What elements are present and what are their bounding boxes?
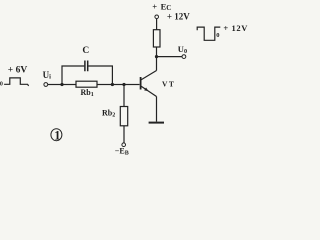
svg-text:VT: VT <box>162 80 175 89</box>
capacitor C <box>82 46 89 71</box>
wire: node A to Rb1 <box>62 84 76 86</box>
ground <box>149 122 164 124</box>
terminal Uo <box>178 44 187 58</box>
figure number 1 (circled) <box>51 128 62 142</box>
input terminal Ui <box>43 70 52 86</box>
node B (junction dot) <box>111 83 114 86</box>
transistor VT <box>141 71 176 97</box>
svg-text:0: 0 <box>216 32 219 39</box>
resistor Rb1 <box>76 81 97 98</box>
terminal -EB <box>115 143 129 157</box>
terminal +EC <box>152 1 171 18</box>
wire: node B to node C <box>112 84 124 86</box>
wire: Rc to +EC terminal <box>156 19 158 30</box>
input waveform pulse <box>4 78 29 86</box>
node C (junction dot) <box>122 83 125 86</box>
wire: node C down to Rb2 <box>123 85 125 107</box>
node A (junction dot) <box>60 83 63 86</box>
wire: Rb2 to -EB terminal <box>123 126 125 143</box>
wire: Rb1 to node B <box>97 84 112 86</box>
wire: node C to transistor base <box>124 84 140 86</box>
svg-text:+: + <box>152 1 157 11</box>
resistor Rb2 <box>102 107 128 126</box>
output waveform pulse <box>197 27 220 40</box>
wire: Ui terminal to node A <box>48 84 62 86</box>
svg-text:+ 6V: + 6V <box>8 66 28 76</box>
svg-text:1: 1 <box>54 128 60 142</box>
resistor Rc <box>153 30 160 47</box>
wire: capacitor loop (left riser, top runs, right riser) <box>62 66 112 85</box>
wire: collector riser <box>156 47 158 71</box>
node D (collector junction dot) <box>155 55 158 58</box>
wire: emitter drop <box>156 97 158 122</box>
svg-text:0: 0 <box>0 81 3 87</box>
wire: collector node to Uo terminal <box>157 56 183 58</box>
svg-text:+ 12V: + 12V <box>167 11 190 21</box>
svg-text:C: C <box>82 46 89 56</box>
svg-text:+ 12V: + 12V <box>223 23 248 33</box>
